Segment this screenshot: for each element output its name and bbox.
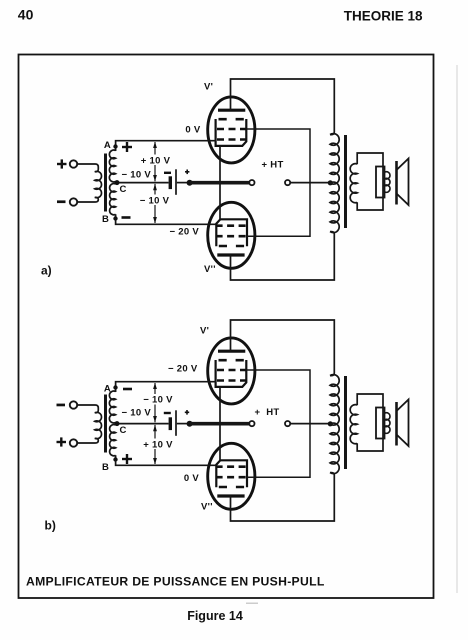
svg-text:B: B xyxy=(102,214,109,225)
svg-text:− 20 V: − 20 V xyxy=(168,364,198,375)
svg-text:40: 40 xyxy=(18,6,34,22)
svg-text:b): b) xyxy=(45,519,56,533)
svg-text:A: A xyxy=(104,140,111,151)
svg-text:B: B xyxy=(102,462,109,473)
svg-text:THEORIE 18: THEORIE 18 xyxy=(344,9,423,24)
svg-text:a): a) xyxy=(41,264,52,278)
svg-text:V'': V'' xyxy=(201,502,213,513)
svg-text:AMPLIFICATEUR DE PUISSANCE EN: AMPLIFICATEUR DE PUISSANCE EN PUSH-PULL xyxy=(26,575,325,589)
svg-text:+ HT: + HT xyxy=(255,407,280,418)
svg-text:V': V' xyxy=(200,326,209,337)
svg-text:C: C xyxy=(120,425,127,436)
svg-text:0 V: 0 V xyxy=(184,473,200,484)
svg-text:V': V' xyxy=(204,82,213,93)
svg-text:+ 10 V: + 10 V xyxy=(143,440,173,451)
svg-text:0 V: 0 V xyxy=(185,124,201,135)
svg-text:− 10 V: − 10 V xyxy=(143,395,173,406)
svg-text:− 10 V: − 10 V xyxy=(140,196,170,207)
svg-text:− 10 V: − 10 V xyxy=(122,170,152,181)
svg-text:+ 10 V: + 10 V xyxy=(141,156,171,167)
svg-text:Figure 14: Figure 14 xyxy=(187,609,243,623)
svg-text:A: A xyxy=(104,383,111,394)
svg-text:+ HT: + HT xyxy=(262,160,284,171)
svg-text:− 10 V: − 10 V xyxy=(122,408,152,419)
svg-text:V'': V'' xyxy=(204,264,216,275)
svg-text:− 20 V: − 20 V xyxy=(169,227,199,238)
svg-text:C: C xyxy=(120,184,127,195)
